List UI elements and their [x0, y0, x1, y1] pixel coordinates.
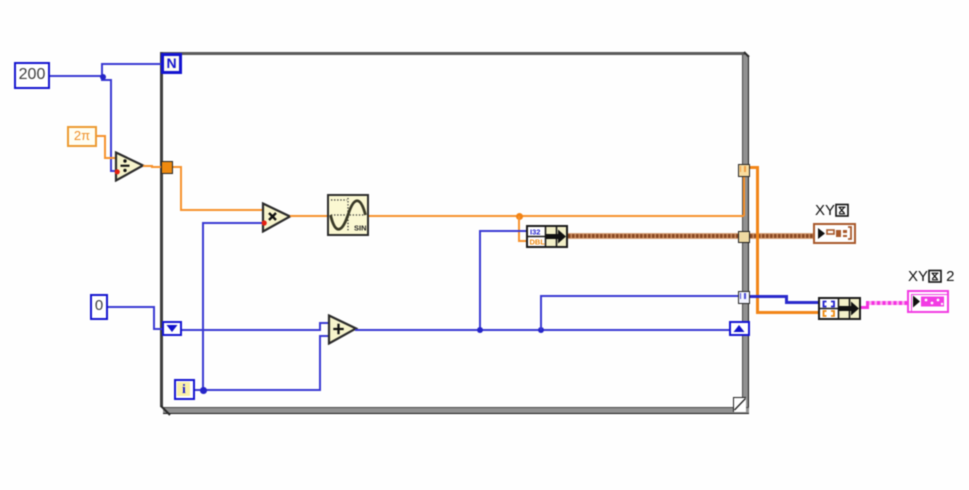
for-loop frame bottom edge	[163, 407, 749, 414]
label XY graph	[815, 202, 849, 219]
for-loop frame right edge	[742, 55, 749, 414]
junction dot add-out 2	[538, 327, 544, 333]
tunnel T1 (scalar, left edge)	[161, 161, 173, 174]
iteration terminal i	[174, 379, 195, 400]
bundle node 2	[818, 297, 861, 320]
wire: down inside loop	[180, 166, 182, 210]
wire: into divide lower input	[110, 170, 117, 172]
wire: i up to multiply	[202, 222, 204, 391]
tunnel T2 (cluster, right edge)	[738, 231, 750, 243]
wire: i terminal out	[195, 389, 321, 391]
wire: array out of tunnel T4	[750, 295, 788, 298]
wire: array jog down	[785, 295, 788, 303]
XY graph 2 terminal	[907, 290, 949, 313]
wire jog horizontal	[101, 79, 112, 81]
tunnel T3 (auto-indexing, orange, right edge top)	[738, 164, 751, 177]
wire: 200 to junction	[50, 75, 103, 77]
wire: into left shift register	[153, 328, 162, 330]
wire: tunnel out	[173, 166, 182, 168]
wire: multiply out to sine and tunnel	[290, 215, 744, 217]
junction dot sine branch	[516, 213, 523, 220]
for-loop frame top edge	[161, 52, 745, 55]
constant 2pi	[67, 126, 97, 147]
wire: junction up	[101, 63, 103, 77]
XY graph terminal	[813, 223, 856, 244]
junction dot add-out 1	[477, 327, 483, 333]
left shift register	[162, 321, 182, 336]
wire: branch up from 541	[540, 295, 542, 330]
wire: array down outside loop	[756, 166, 759, 312]
tunnel T4 (auto-indexing, blue, right edge)	[738, 291, 751, 304]
svg-text:I32: I32	[530, 228, 540, 237]
svg-text:SIN: SIN	[354, 224, 367, 233]
pink jog up	[866, 301, 869, 309]
bundle node 1	[526, 225, 568, 248]
loop resize corner	[733, 397, 746, 412]
wire: into add upper input	[319, 322, 330, 324]
wire: branch down to bundle	[518, 216, 520, 241]
sine function icon	[327, 194, 369, 236]
wire: add out to bundle branch vertical	[479, 230, 481, 330]
junction dot A	[100, 74, 106, 80]
numeric constant 200	[14, 62, 50, 89]
multiply node U2	[261, 202, 293, 233]
wire: output jog	[151, 165, 153, 169]
wire: i to multiply lower input	[202, 222, 263, 224]
numeric constant 0	[90, 294, 108, 320]
wire: sine value up to top tunnel	[743, 175, 745, 216]
wire: shift register to add	[182, 329, 321, 331]
divide node U1	[114, 151, 146, 182]
wire: into bundle upper input	[479, 230, 527, 232]
wire: into left tunnel	[151, 166, 162, 168]
cluster wire: tunnel to XY graph	[750, 233, 814, 239]
wire: to blue tunnel	[540, 295, 738, 297]
wire: 2pi out	[97, 135, 106, 137]
wire: jog up before add	[319, 322, 321, 330]
add node U3	[327, 314, 359, 345]
loop count terminal N	[161, 53, 182, 74]
label XY graph 2	[908, 268, 955, 285]
wire: into add lower input	[319, 335, 330, 337]
frame corner bevel bottom-left	[158, 404, 174, 418]
wire: array into bundle2 lower input	[756, 311, 819, 314]
svg-text:DBL: DBL	[530, 238, 546, 247]
wire: into bundle lower input	[518, 240, 527, 242]
wire: junction to N terminal	[101, 63, 161, 65]
pink dotted to XY graph 2	[866, 301, 907, 305]
wire: 0 constant out	[108, 306, 155, 308]
wire: to multiply upper input	[180, 209, 264, 211]
right shift register	[729, 321, 750, 336]
wire: into divide upper input	[104, 157, 116, 159]
junction dot i	[200, 387, 207, 394]
wire: down to shift register	[153, 306, 155, 330]
wire: 2pi down	[104, 135, 106, 159]
wire: i branch to add vertical	[319, 335, 321, 391]
wire: down to divide y input	[110, 79, 112, 172]
wire: array out of tunnel T3	[750, 166, 759, 169]
cluster wire: bundle1 to tunnel	[568, 233, 738, 239]
wire: junction down jog	[101, 76, 103, 81]
wire: array into bundle2 upper input	[785, 301, 819, 304]
cluster wire pink: bundle2 out	[861, 306, 869, 309]
wire: add output long	[355, 329, 729, 331]
wire: divide output	[143, 165, 153, 167]
frame corner bevel top-right	[741, 51, 751, 60]
for-loop frame left edge	[160, 52, 163, 407]
